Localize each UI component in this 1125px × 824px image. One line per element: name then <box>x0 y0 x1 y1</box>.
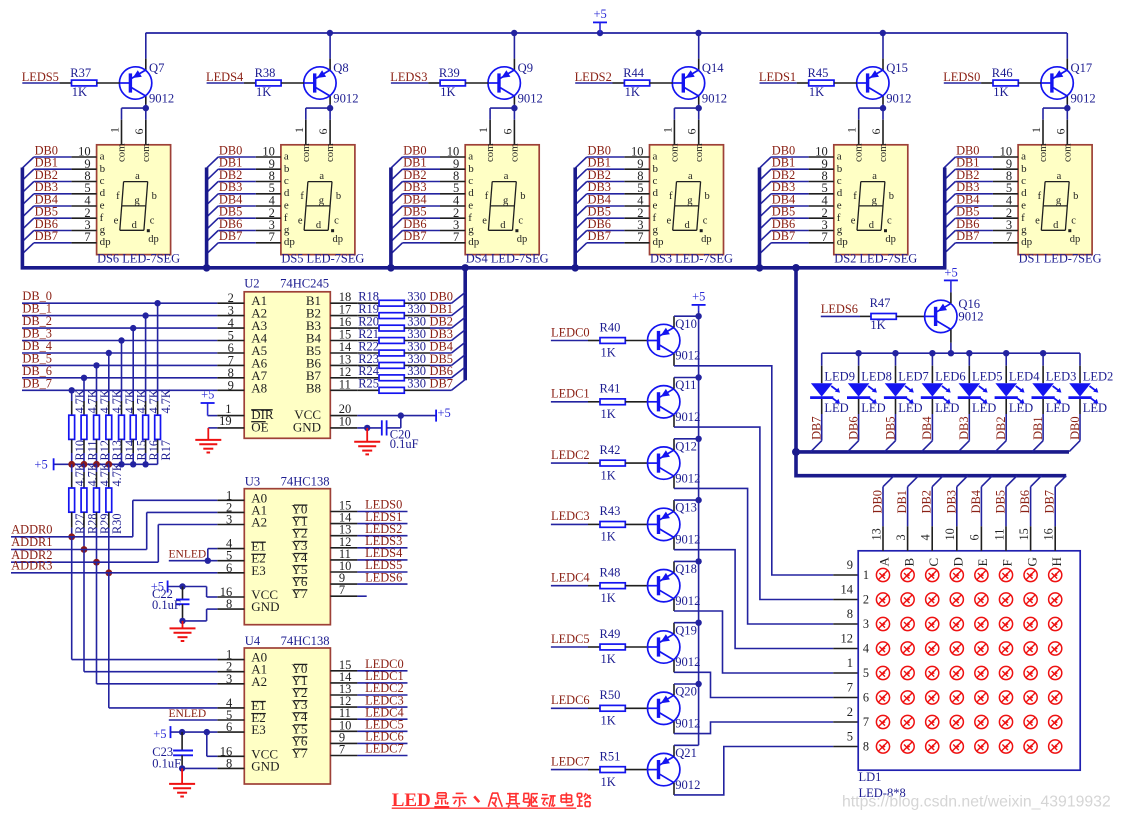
svg-text:a: a <box>688 171 693 182</box>
svg-text:c: c <box>1071 215 1076 226</box>
svg-text:9012: 9012 <box>149 92 174 106</box>
svg-text:1K: 1K <box>601 714 616 728</box>
svg-text:LEDS1: LEDS1 <box>759 70 796 84</box>
svg-text:DB7: DB7 <box>956 229 979 243</box>
svg-text:B: B <box>901 558 916 567</box>
svg-text:1: 1 <box>292 127 306 133</box>
svg-text:6: 6 <box>1053 129 1067 135</box>
svg-text:DB7: DB7 <box>403 229 426 243</box>
svg-text:g: g <box>100 224 106 236</box>
svg-text:b: b <box>837 163 843 175</box>
svg-text:g: g <box>468 224 474 236</box>
svg-text:e: e <box>284 200 289 212</box>
svg-text:DB6: DB6 <box>1018 490 1032 513</box>
svg-text:6: 6 <box>869 129 883 135</box>
svg-text:9012: 9012 <box>675 594 700 608</box>
svg-text:DS1 LED-7SEG: DS1 LED-7SEG <box>1019 251 1102 265</box>
svg-text:dp: dp <box>284 236 296 248</box>
svg-text:ADDR3: ADDR3 <box>11 558 52 572</box>
svg-text:LEDC7: LEDC7 <box>551 754 590 768</box>
svg-text:b: b <box>100 163 106 175</box>
svg-text:LEDC6: LEDC6 <box>551 693 590 707</box>
svg-text:LED: LED <box>898 401 922 415</box>
svg-text:d: d <box>316 220 322 231</box>
svg-text:f: f <box>653 212 657 224</box>
svg-text:R30: R30 <box>110 514 124 535</box>
svg-text:a: a <box>504 171 509 182</box>
svg-text:com: com <box>853 143 865 162</box>
svg-text:com: com <box>140 143 152 162</box>
svg-text:c: c <box>837 175 842 187</box>
svg-text:c: c <box>468 175 473 187</box>
svg-text:a: a <box>468 151 473 163</box>
svg-text:9012: 9012 <box>675 655 700 669</box>
svg-text:LEDS6: LEDS6 <box>821 302 858 316</box>
svg-text:g: g <box>284 224 290 236</box>
svg-text:7: 7 <box>863 715 869 729</box>
svg-text:D: D <box>951 557 966 566</box>
svg-text:a: a <box>284 151 289 163</box>
svg-text:9012: 9012 <box>675 533 700 547</box>
svg-text:d: d <box>685 220 691 231</box>
svg-text:b: b <box>152 191 157 202</box>
svg-text:c: c <box>653 175 658 187</box>
svg-text:LEDC7: LEDC7 <box>365 742 404 756</box>
svg-text:6: 6 <box>968 534 982 540</box>
svg-text:8: 8 <box>226 597 232 611</box>
svg-text:e: e <box>100 200 105 212</box>
svg-text:8: 8 <box>226 756 232 770</box>
svg-text:6: 6 <box>316 129 330 135</box>
svg-text:GND: GND <box>251 599 279 614</box>
svg-text:H: H <box>1049 557 1064 566</box>
svg-text:330: 330 <box>407 377 426 391</box>
svg-text:a: a <box>653 151 658 163</box>
svg-text:9: 9 <box>228 378 234 392</box>
svg-text:1: 1 <box>863 568 869 582</box>
svg-text:Q15: Q15 <box>886 61 908 75</box>
svg-text:e: e <box>298 215 303 226</box>
svg-text:LEDC4: LEDC4 <box>551 571 590 585</box>
svg-text:f: f <box>116 191 120 202</box>
svg-text:5: 5 <box>863 666 869 680</box>
svg-text:dp: dp <box>517 234 528 245</box>
svg-text:com: com <box>116 143 128 162</box>
svg-text:e: e <box>468 200 473 212</box>
svg-text:7: 7 <box>847 681 853 695</box>
svg-text:LD1: LD1 <box>859 770 882 784</box>
svg-text:1K: 1K <box>601 652 616 666</box>
svg-text:12: 12 <box>841 632 854 646</box>
svg-text:R41: R41 <box>600 382 621 396</box>
svg-text:0.1uF: 0.1uF <box>152 757 181 771</box>
svg-text:LED: LED <box>972 401 996 415</box>
svg-text:1K: 1K <box>256 85 271 99</box>
svg-text:A8: A8 <box>251 380 267 395</box>
svg-text:13: 13 <box>869 528 883 540</box>
svg-text:b: b <box>284 163 290 175</box>
svg-text:e: e <box>667 215 672 226</box>
svg-text:3: 3 <box>226 672 232 686</box>
svg-text:1K: 1K <box>601 530 616 544</box>
svg-text:10: 10 <box>339 414 352 428</box>
svg-text:6: 6 <box>226 561 232 575</box>
svg-text:E3: E3 <box>251 722 265 737</box>
svg-text:a: a <box>319 171 324 182</box>
svg-text:f: f <box>300 191 304 202</box>
svg-text:dp: dp <box>148 234 159 245</box>
svg-text:9012: 9012 <box>958 310 983 324</box>
svg-text:R37: R37 <box>70 66 91 80</box>
svg-text:LEDS5: LEDS5 <box>22 70 59 84</box>
svg-text:Q8: Q8 <box>333 61 348 75</box>
svg-text:b: b <box>468 163 474 175</box>
svg-text:+5: +5 <box>944 265 957 279</box>
svg-text:e: e <box>653 200 658 212</box>
svg-text:9012: 9012 <box>675 717 700 731</box>
svg-text:G: G <box>1024 557 1039 566</box>
svg-text:LED: LED <box>824 401 848 415</box>
svg-text:dp: dp <box>100 236 112 248</box>
svg-text:1K: 1K <box>870 318 885 332</box>
svg-text:LEDS3: LEDS3 <box>390 70 427 84</box>
svg-text:1K: 1K <box>809 85 824 99</box>
svg-text:1K: 1K <box>601 591 616 605</box>
svg-text:+5: +5 <box>438 406 451 420</box>
svg-text:Y7: Y7 <box>292 746 308 761</box>
svg-text:a: a <box>872 171 877 182</box>
svg-text:dp: dp <box>468 236 480 248</box>
svg-text:dp: dp <box>653 236 665 248</box>
svg-text:b: b <box>889 191 894 202</box>
svg-text:+5: +5 <box>34 458 47 472</box>
svg-text:d: d <box>1053 220 1059 231</box>
svg-text:R50: R50 <box>600 688 621 702</box>
svg-text:d: d <box>500 220 506 231</box>
svg-text:e: e <box>837 200 842 212</box>
svg-text:com: com <box>877 143 889 162</box>
svg-text:Q19: Q19 <box>675 623 697 637</box>
svg-text:d: d <box>1021 187 1027 199</box>
svg-text:a: a <box>135 171 140 182</box>
svg-text:LED: LED <box>861 401 885 415</box>
svg-text:U4: U4 <box>245 634 261 648</box>
svg-text:6: 6 <box>226 720 232 734</box>
svg-text:DB2: DB2 <box>994 416 1008 439</box>
svg-text:LED3: LED3 <box>1046 370 1077 384</box>
svg-text:A2: A2 <box>251 674 267 689</box>
svg-text:7: 7 <box>84 230 90 244</box>
svg-text:dp: dp <box>1070 234 1081 245</box>
svg-text:c: c <box>334 215 339 226</box>
svg-text:1: 1 <box>1029 127 1043 133</box>
svg-text:dp: dp <box>701 234 712 245</box>
svg-text:19: 19 <box>219 414 232 428</box>
svg-text:LED: LED <box>1046 401 1070 415</box>
svg-text:b: b <box>1073 191 1078 202</box>
svg-text:g: g <box>872 195 878 206</box>
svg-text:3: 3 <box>863 617 869 631</box>
svg-text:Q18: Q18 <box>675 562 697 576</box>
svg-text:A2: A2 <box>251 515 267 530</box>
svg-text:LED5: LED5 <box>972 370 1003 384</box>
svg-text:1K: 1K <box>625 85 640 99</box>
svg-text:1: 1 <box>845 127 859 133</box>
svg-text:DB7: DB7 <box>1043 490 1057 513</box>
svg-text:d: d <box>100 187 106 199</box>
svg-text:GND: GND <box>251 758 279 773</box>
svg-text:c: c <box>703 215 708 226</box>
svg-text:+5: +5 <box>692 289 705 303</box>
svg-text:R43: R43 <box>600 504 621 518</box>
svg-text:DS4 LED-7SEG: DS4 LED-7SEG <box>466 251 549 265</box>
svg-text:E3: E3 <box>251 563 265 578</box>
svg-text:Q10: Q10 <box>675 317 697 331</box>
svg-text:3: 3 <box>894 534 908 540</box>
svg-text:E: E <box>975 559 990 567</box>
svg-text:DB7: DB7 <box>219 229 242 243</box>
svg-text:DB7: DB7 <box>430 377 453 391</box>
svg-text:1K: 1K <box>72 85 87 99</box>
svg-text:DB7: DB7 <box>588 229 611 243</box>
svg-text:DB3: DB3 <box>957 416 971 439</box>
svg-text:f: f <box>853 191 857 202</box>
svg-text:11: 11 <box>339 377 351 391</box>
svg-text:d: d <box>132 220 138 231</box>
svg-text:10: 10 <box>943 528 957 540</box>
svg-text:7: 7 <box>637 230 643 244</box>
svg-text:1: 1 <box>847 656 853 670</box>
svg-text:9012: 9012 <box>675 778 700 792</box>
svg-text:d: d <box>653 187 659 199</box>
svg-text:9012: 9012 <box>675 410 700 424</box>
svg-text:a: a <box>837 151 842 163</box>
svg-text:DB5: DB5 <box>994 490 1008 513</box>
svg-text:1: 1 <box>108 127 122 133</box>
svg-text:DB4: DB4 <box>969 490 983 513</box>
svg-text:LED6: LED6 <box>935 370 966 384</box>
svg-text:LEDC3: LEDC3 <box>551 509 590 523</box>
svg-text:9012: 9012 <box>675 349 700 363</box>
svg-text:6: 6 <box>132 129 146 135</box>
svg-text:b: b <box>705 191 710 202</box>
svg-text:1: 1 <box>476 127 490 133</box>
svg-text:ENLED: ENLED <box>169 549 207 561</box>
svg-text:g: g <box>503 195 509 206</box>
svg-text:R47: R47 <box>870 296 891 310</box>
svg-text:Q20: Q20 <box>675 685 697 699</box>
svg-text:g: g <box>319 195 325 206</box>
svg-text:C: C <box>926 558 941 567</box>
svg-text:Q9: Q9 <box>518 61 533 75</box>
svg-text:9012: 9012 <box>518 92 543 106</box>
svg-text:9012: 9012 <box>333 92 358 106</box>
svg-text:c: c <box>518 215 523 226</box>
svg-text:A: A <box>877 557 892 567</box>
svg-text:g: g <box>134 195 140 206</box>
svg-text:R39: R39 <box>439 66 460 80</box>
svg-text:4.7K: 4.7K <box>110 462 124 486</box>
svg-text:LED: LED <box>935 401 959 415</box>
svg-text:1K: 1K <box>601 407 616 421</box>
svg-text:DB7: DB7 <box>35 229 58 243</box>
svg-text:f: f <box>1038 191 1042 202</box>
svg-text:+5: +5 <box>594 7 607 21</box>
svg-text:4: 4 <box>919 534 933 540</box>
svg-text:LED4: LED4 <box>1009 370 1040 384</box>
svg-text:DB6: DB6 <box>846 416 860 439</box>
svg-text:1K: 1K <box>440 85 455 99</box>
svg-text:DB4: DB4 <box>920 416 934 439</box>
svg-text:DB7: DB7 <box>810 416 824 439</box>
svg-text:e: e <box>1035 215 1040 226</box>
svg-text:8: 8 <box>863 740 869 754</box>
svg-text:7: 7 <box>339 743 345 757</box>
svg-text:Q17: Q17 <box>1071 61 1093 75</box>
svg-text:f: f <box>1021 212 1025 224</box>
svg-text:b: b <box>520 191 525 202</box>
svg-text:g: g <box>653 224 659 236</box>
svg-text:1K: 1K <box>601 346 616 360</box>
svg-text:dp: dp <box>885 234 896 245</box>
svg-text:g: g <box>837 224 843 236</box>
svg-text:Q21: Q21 <box>675 746 697 760</box>
svg-text:DS2 LED-7SEG: DS2 LED-7SEG <box>834 251 917 265</box>
svg-text:e: e <box>114 215 119 226</box>
svg-text:+5: +5 <box>201 388 214 402</box>
svg-text:https://blog.csdn.net/weixin_4: https://blog.csdn.net/weixin_43919932 <box>842 794 1111 811</box>
svg-text:Y7: Y7 <box>292 586 308 601</box>
svg-text:7: 7 <box>269 230 275 244</box>
svg-text:1K: 1K <box>601 468 616 482</box>
svg-text:DB3: DB3 <box>944 490 958 513</box>
svg-text:LED8: LED8 <box>861 370 892 384</box>
svg-text:+5: +5 <box>153 727 166 741</box>
svg-text:c: c <box>284 175 289 187</box>
svg-text:d: d <box>468 187 474 199</box>
svg-text:g: g <box>1056 195 1062 206</box>
svg-text:b: b <box>653 163 659 175</box>
svg-text:DB2: DB2 <box>920 490 934 513</box>
svg-text:dp: dp <box>837 236 849 248</box>
svg-text:d: d <box>284 187 290 199</box>
svg-text:c: c <box>150 215 155 226</box>
svg-text:16: 16 <box>1042 528 1056 540</box>
svg-text:com: com <box>509 143 521 162</box>
svg-text:g: g <box>687 195 693 206</box>
svg-text:LEDC0: LEDC0 <box>551 325 590 339</box>
svg-text:LEDC5: LEDC5 <box>551 632 590 646</box>
svg-text:dp: dp <box>333 234 344 245</box>
svg-text:Q13: Q13 <box>675 501 697 515</box>
svg-text:ENLED: ENLED <box>169 708 207 720</box>
svg-text:74HC138: 74HC138 <box>281 475 330 489</box>
svg-text:com: com <box>668 143 680 162</box>
svg-text:7: 7 <box>822 230 828 244</box>
svg-text:c: c <box>887 215 892 226</box>
svg-text:R17: R17 <box>159 440 173 461</box>
svg-text:1K: 1K <box>601 775 616 789</box>
svg-text:9012: 9012 <box>1071 92 1096 106</box>
svg-text:DB_7: DB_7 <box>22 376 52 390</box>
svg-text:f: f <box>669 191 673 202</box>
svg-text:com: com <box>1037 143 1049 162</box>
svg-text:a: a <box>100 151 105 163</box>
svg-text:R49: R49 <box>600 627 621 641</box>
svg-text:DB1: DB1 <box>895 490 909 513</box>
svg-text:14: 14 <box>841 583 854 597</box>
svg-text:e: e <box>1021 200 1026 212</box>
svg-text:R40: R40 <box>600 320 621 334</box>
svg-text:74HC245: 74HC245 <box>280 277 329 291</box>
svg-text:f: f <box>837 212 841 224</box>
svg-text:c: c <box>100 175 105 187</box>
svg-text:9012: 9012 <box>702 92 727 106</box>
svg-text:7: 7 <box>453 230 459 244</box>
svg-text:R44: R44 <box>623 66 645 80</box>
svg-text:4: 4 <box>863 642 869 656</box>
svg-text:f: f <box>284 212 288 224</box>
svg-text:2: 2 <box>863 593 869 607</box>
svg-text:e: e <box>851 215 856 226</box>
svg-text:LED7: LED7 <box>898 370 929 384</box>
svg-text:LEDS6: LEDS6 <box>365 570 402 584</box>
svg-text:com: com <box>693 143 705 162</box>
svg-text:R25: R25 <box>358 377 379 391</box>
svg-text:dp: dp <box>1021 236 1033 248</box>
svg-text:LED: LED <box>1083 401 1107 415</box>
svg-text:f: f <box>468 212 472 224</box>
svg-text:3: 3 <box>226 513 232 527</box>
svg-text:0.1uF: 0.1uF <box>152 598 181 612</box>
svg-text:LEDC2: LEDC2 <box>551 448 590 462</box>
svg-text:GND: GND <box>293 419 321 434</box>
svg-text:c: c <box>1021 175 1026 187</box>
svg-text:6: 6 <box>685 129 699 135</box>
svg-text:7: 7 <box>339 583 345 597</box>
svg-text:Q7: Q7 <box>149 61 164 75</box>
svg-text:DS5 LED-7SEG: DS5 LED-7SEG <box>281 251 364 265</box>
svg-text:LEDS0: LEDS0 <box>943 70 980 84</box>
svg-text:LEDC1: LEDC1 <box>551 387 590 401</box>
svg-text:com: com <box>300 143 312 162</box>
svg-text:LED: LED <box>1009 401 1033 415</box>
svg-text:DS3 LED-7SEG: DS3 LED-7SEG <box>650 251 733 265</box>
svg-text:b: b <box>336 191 341 202</box>
svg-text:0.1uF: 0.1uF <box>390 437 419 451</box>
svg-text:Q14: Q14 <box>702 61 724 75</box>
svg-text:DB7: DB7 <box>772 229 795 243</box>
svg-text:1: 1 <box>660 127 674 133</box>
svg-text:7: 7 <box>1006 230 1012 244</box>
svg-text:a: a <box>1021 151 1026 163</box>
svg-text:9: 9 <box>847 558 853 572</box>
svg-text:a: a <box>1057 171 1062 182</box>
svg-text:DB1: DB1 <box>1031 416 1045 439</box>
svg-text:9012: 9012 <box>886 92 911 106</box>
svg-text:com: com <box>1061 143 1073 162</box>
svg-text:f: f <box>485 191 489 202</box>
svg-text:U3: U3 <box>245 475 260 489</box>
svg-text:d: d <box>837 187 843 199</box>
svg-text:com: com <box>484 143 496 162</box>
svg-text:B8: B8 <box>306 380 321 395</box>
svg-text:74HC138: 74HC138 <box>281 634 330 648</box>
svg-text:9012: 9012 <box>675 471 700 485</box>
svg-text:DB0: DB0 <box>871 490 885 513</box>
svg-text:R48: R48 <box>600 566 621 580</box>
svg-text:6: 6 <box>500 129 514 135</box>
